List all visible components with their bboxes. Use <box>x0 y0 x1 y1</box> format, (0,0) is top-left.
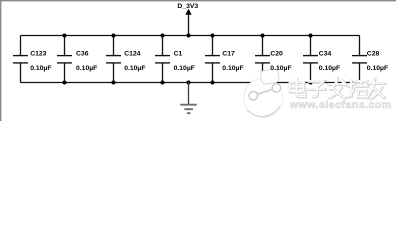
svg-text:0.10µF: 0.10µF <box>76 65 97 72</box>
junction node C20 top <box>261 34 265 38</box>
capacitor C123 0.10uF <box>13 36 51 83</box>
capacitor C34 0.10uF <box>303 36 340 83</box>
junction node C34 top <box>309 34 313 38</box>
capacitor C36 0.10uF <box>57 36 97 83</box>
junction node C1 bottom <box>161 81 165 85</box>
watermark text you (friend) <box>367 79 385 99</box>
svg-text:0.10µF: 0.10µF <box>270 65 291 72</box>
svg-text:C124: C124 <box>124 51 140 58</box>
ground symbol <box>180 83 197 114</box>
wire: bottom rail (GND net) <box>21 82 360 84</box>
svg-text:0.10µF: 0.10µF <box>222 65 243 72</box>
sheet border top <box>0 0 396 1</box>
svg-text:0.10µF: 0.10µF <box>30 65 51 72</box>
junction node C124 bottom <box>112 81 116 85</box>
capacitor C20 0.10uF <box>255 36 283 83</box>
junction node C17 bottom <box>211 81 215 85</box>
svg-text:C17: C17 <box>222 51 235 58</box>
svg-text:D_3V3: D_3V3 <box>177 3 198 10</box>
sheet border left <box>0 0 1 121</box>
junction node C17 top <box>211 34 215 38</box>
svg-text:C36: C36 <box>76 51 89 58</box>
svg-text:C20: C20 <box>270 51 283 58</box>
capacitor C28 0.10uF <box>352 36 388 83</box>
wire: top rail (D_3V3 net) <box>21 35 360 37</box>
junction node C36 bottom <box>63 81 67 85</box>
junction node C1 top <box>161 34 165 38</box>
capacitor C124 0.10uF <box>106 36 145 83</box>
svg-text:C34: C34 <box>319 51 332 58</box>
svg-text:C1: C1 <box>174 51 183 58</box>
svg-text:0.10µF: 0.10µF <box>367 65 388 72</box>
junction node ground stub <box>187 81 191 85</box>
watermark logo circle <box>244 68 283 117</box>
watermark text fa (emit) <box>328 78 346 98</box>
svg-text:C123: C123 <box>30 51 46 58</box>
svg-text:0.10µF: 0.10µF <box>124 65 145 72</box>
power symbol D_3V3 <box>177 3 198 36</box>
svg-text:0.10µF: 0.10µF <box>174 65 195 72</box>
junction node C124 top <box>112 34 116 38</box>
junction node power stub <box>187 34 191 38</box>
junction node C34 bottom <box>309 81 313 85</box>
svg-text:C28: C28 <box>367 51 380 58</box>
capacitor C17 0.10uF <box>205 36 244 83</box>
capacitor C1 0.10uF <box>155 36 195 83</box>
junction node C20 bottom <box>261 81 265 85</box>
svg-text:0.10µF: 0.10µF <box>319 65 340 72</box>
watermark text shao (burn) <box>348 80 368 97</box>
junction node C36 top <box>63 34 67 38</box>
watermark text zi (child) <box>307 81 325 97</box>
svg-text:www.elecfans.com: www.elecfans.com <box>289 99 392 111</box>
watermark text dian (electric) <box>290 79 306 97</box>
